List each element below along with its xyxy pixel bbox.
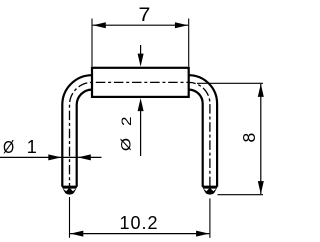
- dimension 7: left arrowhead: [93, 22, 106, 28]
- dimension 10.2: left extension line: [69, 197, 71, 238]
- dimension d1: leader line: [0, 156, 102, 158]
- wire right leg inner edge and right bend inner arc: [189, 90, 203, 187]
- dimension d2: lower arrowhead pointing up: [138, 98, 144, 111]
- wire left leg inner edge and left bend inner arc: [77, 90, 92, 187]
- dimension d2: upper arrowhead pointing down: [138, 54, 144, 67]
- dimension d2: lower arrow line: [140, 104, 142, 156]
- dimension d1: left-pointing arrowhead at leg right edge: [78, 154, 91, 160]
- dimension 8: top extension line at wire centerline: [197, 82, 263, 84]
- left leg tip: [61, 186, 78, 195]
- dimension d2: upper arrow line: [140, 45, 142, 57]
- dimension 7: left extension line: [91, 19, 93, 67]
- wire left leg outer edge and left bend outer arc: [62, 75, 92, 186]
- dimension 8: bottom arrowhead pointing down: [258, 181, 264, 194]
- dimension 10.2: right arrowhead: [196, 231, 209, 237]
- centerline (dash-dot) through legs, bends and sleeve: [70, 82, 210, 192]
- svg-text:Ø: Ø: [119, 138, 134, 151]
- sleeve body: [92, 68, 189, 97]
- dimension 10.2: right extension line: [209, 199, 211, 238]
- dimension 8: dimension line: [260, 84, 262, 194]
- dimension 7: dimension line: [93, 24, 189, 26]
- svg-text:2: 2: [119, 117, 134, 126]
- svg-text:10.2: 10.2: [119, 213, 158, 233]
- dimension 8: bottom extension line at leg tip: [218, 194, 264, 196]
- right leg tip: [202, 186, 219, 195]
- dimension 7: right extension line: [188, 19, 190, 67]
- dimension 10.2: dimension line: [70, 233, 209, 235]
- dimension 8: top arrowhead pointing up: [258, 84, 264, 97]
- dimension d1: right-pointing arrowhead at leg left edge: [48, 154, 61, 160]
- dimension 10.2: left arrowhead: [70, 231, 83, 237]
- dimension 7: right arrowhead: [175, 22, 188, 28]
- svg-text:Ø: Ø: [3, 139, 14, 158]
- svg-text:1: 1: [27, 137, 37, 157]
- wire right leg outer edge and right bend outer arc: [189, 75, 217, 186]
- svg-text:7: 7: [138, 5, 150, 26]
- svg-text:8: 8: [239, 133, 259, 143]
